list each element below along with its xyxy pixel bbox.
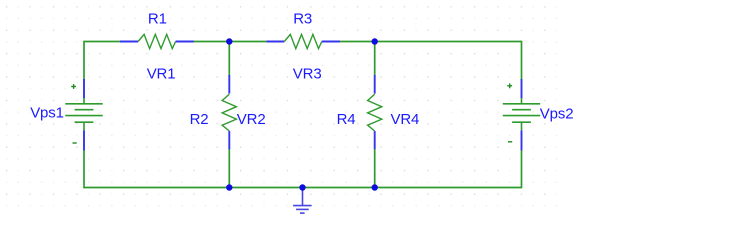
- svg-text:R2: R2: [190, 111, 209, 128]
- wire right vertical lower: [521, 150, 523, 188]
- resistor R4: [368, 75, 382, 149]
- svg-text:R4: R4: [337, 111, 356, 128]
- wire top-middle horizontal: [193, 41, 267, 43]
- wire R4 lower vertical: [374, 149, 376, 188]
- voltage source Vps1: [65, 79, 102, 150]
- svg-text:VR4: VR4: [391, 111, 420, 128]
- wire top-left horizontal: [84, 41, 120, 43]
- wire top-right horizontal: [339, 41, 522, 43]
- resistor R3: [267, 34, 340, 48]
- junction node bottom R2: [226, 184, 232, 190]
- junction node top R2: [226, 38, 232, 44]
- ground: [293, 188, 312, 213]
- svg-text:VR1: VR1: [147, 66, 176, 83]
- wire bottom horizontal: [84, 187, 522, 189]
- junction node top R4: [372, 38, 378, 44]
- svg-text:Vps1: Vps1: [30, 105, 64, 122]
- svg-text:VR2: VR2: [237, 111, 266, 128]
- junction node bottom ground: [299, 184, 305, 190]
- svg-text:Vps2: Vps2: [540, 105, 574, 122]
- svg-text:R1: R1: [148, 11, 167, 28]
- wire R2 lower vertical: [228, 149, 230, 188]
- svg-text:R3: R3: [293, 11, 312, 28]
- resistor R2: [222, 75, 236, 149]
- voltage source Vps2: [503, 79, 540, 150]
- wire left vertical lower: [83, 150, 85, 188]
- svg-text:VR3: VR3: [293, 66, 322, 83]
- resistor R1: [120, 34, 194, 48]
- junction node bottom R4: [372, 184, 378, 190]
- wire right vertical upper: [521, 41, 523, 80]
- wire left vertical upper: [83, 41, 85, 80]
- wire R4 upper vertical: [374, 42, 376, 76]
- wire R2 upper vertical: [228, 42, 230, 76]
